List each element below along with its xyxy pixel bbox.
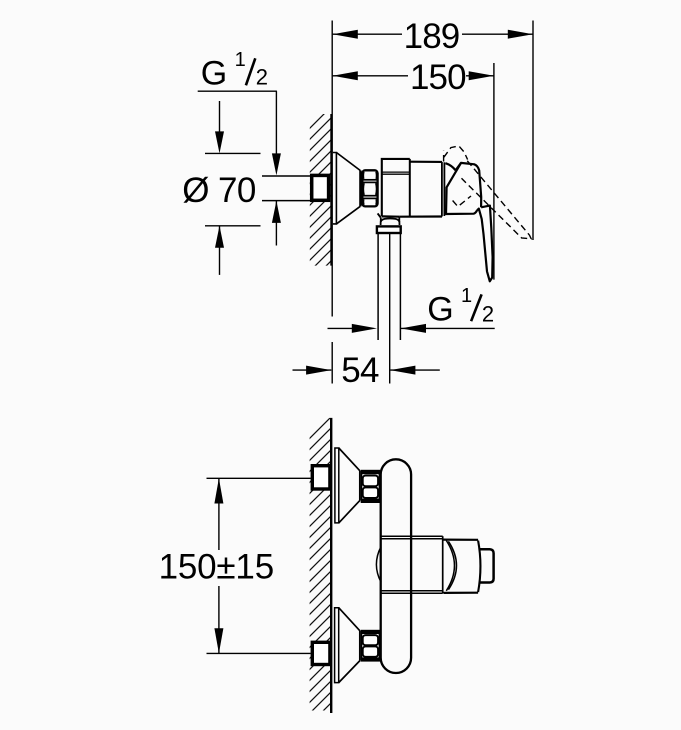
- upper union square (plan view): [312, 466, 330, 489]
- svg-text:2: 2: [256, 65, 268, 90]
- wall union square fitting (side view): [312, 175, 329, 200]
- svg-text:150: 150: [410, 58, 466, 97]
- cartridge housing (plan view): [376, 536, 442, 593]
- wall hatching (plan view): [306, 414, 334, 730]
- svg-text:150±15: 150±15: [159, 548, 274, 587]
- svg-text:G: G: [201, 55, 227, 93]
- dimension diameter 70: [205, 101, 261, 275]
- valve connection block: [382, 159, 410, 216]
- wall face line (side view): [330, 114, 333, 266]
- faucet body capsule (plan view): [381, 459, 411, 673]
- outlet stub and flare: [378, 213, 400, 225]
- cartridge housing (side view): [382, 162, 445, 217]
- upper escutcheon (plan view): [335, 448, 360, 523]
- hex nut (side view): [362, 170, 377, 206]
- lower union square (plan view): [312, 642, 330, 664]
- lever stub (plan view): [480, 549, 494, 582]
- dimension 150 (side view): [333, 63, 494, 280]
- lever handle (side view, solid): [446, 163, 493, 281]
- wall face extension below (side view): [331, 266, 333, 384]
- lever handle raised position (dashed): [444, 146, 532, 239]
- svg-text:189: 189: [404, 17, 460, 56]
- upper hex nut (plan view): [362, 471, 380, 503]
- wall hatching (side view): [306, 104, 334, 319]
- wall face line (plan view): [330, 418, 332, 713]
- shower hose lines: [378, 234, 400, 384]
- handle cap (plan view): [443, 540, 480, 593]
- dimension 189: [332, 21, 533, 241]
- dimension 54: [293, 369, 440, 371]
- svg-text:54: 54: [341, 351, 379, 390]
- dimension 150 plus minus 15: [207, 478, 311, 653]
- supply pipe: [262, 176, 311, 201]
- svg-text:2: 2: [482, 302, 494, 327]
- lower escutcheon (plan view): [335, 608, 360, 683]
- escutcheon (side view): [333, 153, 361, 224]
- hose connector ring: [377, 226, 401, 233]
- lower hex nut (plan view): [362, 631, 380, 661]
- svg-text:G: G: [427, 291, 453, 329]
- label G 1/2 upper with leader: [198, 91, 277, 156]
- svg-text:Ø 70: Ø 70: [182, 171, 256, 210]
- svg-text:1: 1: [461, 285, 472, 307]
- label G 1/2 lower (hose thread): [328, 327, 495, 329]
- svg-text:1: 1: [235, 49, 246, 71]
